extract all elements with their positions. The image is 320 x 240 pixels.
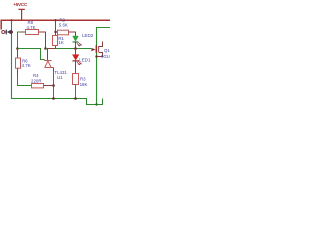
svg-text:4.7K: 4.7K xyxy=(22,63,31,68)
node W1-rail xyxy=(10,19,12,21)
svg-text:220R: 220R xyxy=(31,78,42,83)
svg-text:R4: R4 xyxy=(33,73,39,78)
resistor R1 (1K) xyxy=(53,36,58,46)
wire W3 node A to TL431 ref xyxy=(18,49,45,60)
terminal circle xyxy=(2,31,5,34)
resistor R8 xyxy=(21,30,46,49)
node rail-55 xyxy=(54,19,56,21)
svg-text:Q1: Q1 xyxy=(104,48,110,53)
svg-text:4.7K: 4.7K xyxy=(27,25,36,30)
svg-text:5.6K: 5.6K xyxy=(59,22,68,27)
node LED junction xyxy=(74,47,77,50)
svg-text:LED2: LED2 xyxy=(82,33,94,38)
resistor R4 xyxy=(32,84,54,88)
wire W4 R6 to R4 xyxy=(18,76,32,86)
LED1 red xyxy=(72,49,81,74)
node R8-cathode xyxy=(44,47,47,50)
node diode junction xyxy=(10,31,13,34)
resistor R3 xyxy=(73,74,79,99)
resistor R6 xyxy=(16,49,21,77)
node R4-W6 xyxy=(52,84,55,87)
transistor Q1 xyxy=(91,42,102,57)
node R3 bottom xyxy=(74,97,77,100)
node Q emitter xyxy=(95,55,97,57)
svg-text:LED1: LED1 xyxy=(79,58,91,63)
wire W6 anode down xyxy=(53,71,55,99)
node A xyxy=(16,47,19,50)
wire W8 gate from right edge xyxy=(97,28,111,105)
resistor R2 xyxy=(56,30,76,36)
svg-text:+5VCC: +5VCC xyxy=(13,2,28,7)
svg-text:9014: 9014 xyxy=(101,54,110,59)
power rail +5V top xyxy=(1,20,111,29)
diode D1 xyxy=(5,30,12,35)
wire W1 left vertical to bottom rail xyxy=(12,21,103,105)
svg-text:U1: U1 xyxy=(57,75,63,80)
vertical red column x=55 from rail xyxy=(48,20,56,48)
+5VCC terminal symbol xyxy=(18,9,24,20)
TL431 U1 xyxy=(44,49,54,72)
wire W2 from R8 left down to node A xyxy=(18,32,22,49)
svg-text:1K: 1K xyxy=(58,40,63,45)
node R2 tap xyxy=(54,31,56,33)
node W6 bottom xyxy=(52,97,55,100)
wire W7 cathode node to transistor xyxy=(46,48,92,50)
node bottom mid xyxy=(95,103,97,105)
svg-text:18K: 18K xyxy=(80,82,88,87)
LED2 green xyxy=(73,36,82,49)
